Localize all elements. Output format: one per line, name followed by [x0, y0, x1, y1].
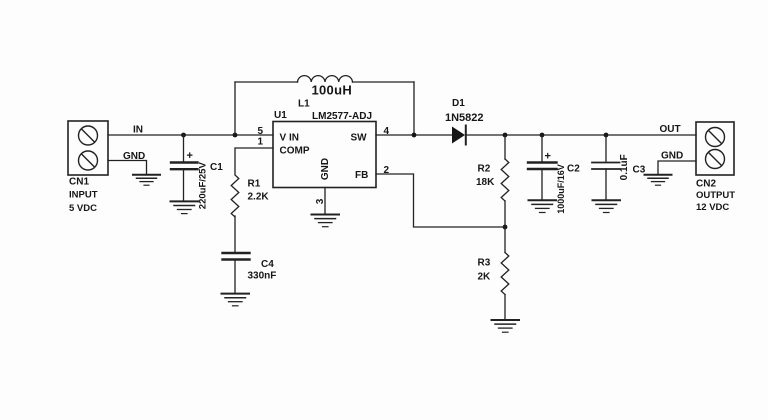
wire output rail	[466, 134, 696, 136]
svg-text:FB: FB	[355, 170, 368, 181]
wire COMP stub	[235, 148, 273, 174]
svg-text:R3: R3	[478, 258, 491, 269]
ground (C3)	[593, 200, 621, 212]
wire top rail right of L1	[353, 81, 415, 83]
ground (C4)	[222, 294, 250, 306]
svg-text:R2: R2	[478, 164, 491, 175]
op-amp U1 LM2577-ADJ box	[273, 122, 376, 188]
connector CN1	[68, 121, 108, 175]
ground (U1 pin3)	[312, 215, 340, 227]
svg-text:COMP: COMP	[280, 146, 310, 157]
wire input rail IN	[108, 134, 273, 136]
svg-text:OUTPUT: OUTPUT	[696, 190, 735, 201]
wire C1 branch lower	[183, 169, 185, 201]
resistor R2	[501, 159, 509, 201]
ground (C2)	[529, 200, 557, 212]
svg-text:INPUT: INPUT	[69, 190, 98, 201]
wire C1 branch upper	[183, 135, 185, 162]
node junction at C3	[604, 133, 609, 138]
wire riser down from L1	[413, 82, 415, 135]
wire R2 top lead	[504, 135, 506, 159]
svg-text:CN1: CN1	[69, 177, 89, 188]
capacitor C1	[171, 163, 198, 170]
svg-text:5 VDC: 5 VDC	[69, 203, 97, 214]
svg-text:OUT: OUT	[660, 124, 681, 135]
node junction R2/R3/FB	[503, 225, 508, 230]
resistor R1	[231, 175, 239, 217]
node junction at riser/SW	[412, 133, 417, 138]
node junction at R2 top	[503, 133, 508, 138]
svg-text:C1: C1	[210, 162, 223, 173]
svg-text:330nF: 330nF	[248, 271, 277, 282]
ground (CN2)	[645, 175, 672, 186]
node junction at C1	[181, 133, 186, 138]
svg-text:LM2577-ADJ: LM2577-ADJ	[312, 111, 372, 122]
wire CN1 GND stub	[108, 161, 147, 175]
svg-text:1N5822: 1N5822	[445, 112, 484, 124]
svg-text:L1: L1	[298, 99, 310, 110]
wire C3 branch upper	[605, 135, 607, 162]
svg-text:+: +	[545, 151, 551, 163]
svg-text:IN: IN	[133, 125, 143, 136]
svg-text:C2: C2	[567, 164, 580, 175]
wire CN2 GND stub	[658, 161, 696, 175]
svg-text:U1: U1	[274, 110, 287, 121]
ground (CN1)	[133, 175, 160, 186]
svg-text:100uH: 100uH	[312, 83, 353, 98]
svg-text:18K: 18K	[476, 177, 495, 188]
svg-text:1: 1	[258, 137, 264, 148]
wire C2 branch lower	[541, 169, 543, 200]
wire top rail left of L1	[235, 81, 298, 83]
svg-text:GND: GND	[320, 158, 331, 180]
svg-text:+: +	[187, 150, 193, 162]
diode D1	[452, 126, 466, 145]
wire riser up to L1	[234, 82, 236, 135]
svg-text:V IN: V IN	[280, 133, 299, 144]
svg-text:GND: GND	[661, 151, 683, 162]
wire R3 top lead	[504, 227, 506, 253]
inductor L1	[298, 76, 353, 82]
svg-text:5: 5	[258, 126, 264, 137]
svg-text:12 VDC: 12 VDC	[696, 202, 729, 213]
wire R1 to C4	[234, 216, 236, 253]
ground (C1)	[171, 201, 199, 213]
wire SW rail	[376, 134, 452, 136]
svg-text:GND: GND	[123, 151, 145, 162]
node junction to inductor riser	[233, 133, 238, 138]
wire U1 pin3 to ground	[324, 188, 326, 215]
capacitor C4	[223, 253, 250, 260]
svg-text:2.2K: 2.2K	[248, 192, 270, 203]
svg-text:2K: 2K	[478, 272, 492, 283]
svg-text:0.1uF: 0.1uF	[619, 154, 630, 180]
node junction at C2	[540, 133, 545, 138]
svg-text:C4: C4	[261, 259, 274, 270]
wire R2 bottom lead	[504, 201, 506, 227]
svg-text:D1: D1	[452, 98, 465, 109]
svg-text:1000uF/16V: 1000uF/16V	[556, 164, 566, 214]
svg-text:SW: SW	[351, 133, 368, 144]
wire C2 branch upper	[541, 135, 543, 162]
connector CN2	[696, 122, 734, 175]
resistor R3	[501, 253, 509, 295]
wire C4 to ground	[234, 260, 236, 294]
svg-text:R1: R1	[248, 179, 261, 190]
wire R3 to ground	[504, 295, 506, 320]
svg-text:220uF/25V: 220uF/25V	[198, 162, 209, 210]
capacitor C2	[528, 163, 557, 170]
capacitor C3	[592, 163, 620, 170]
ground (R3)	[492, 320, 520, 332]
svg-text:CN2: CN2	[696, 179, 716, 190]
wire C3 branch lower	[605, 169, 607, 200]
wire FB route	[376, 174, 505, 227]
